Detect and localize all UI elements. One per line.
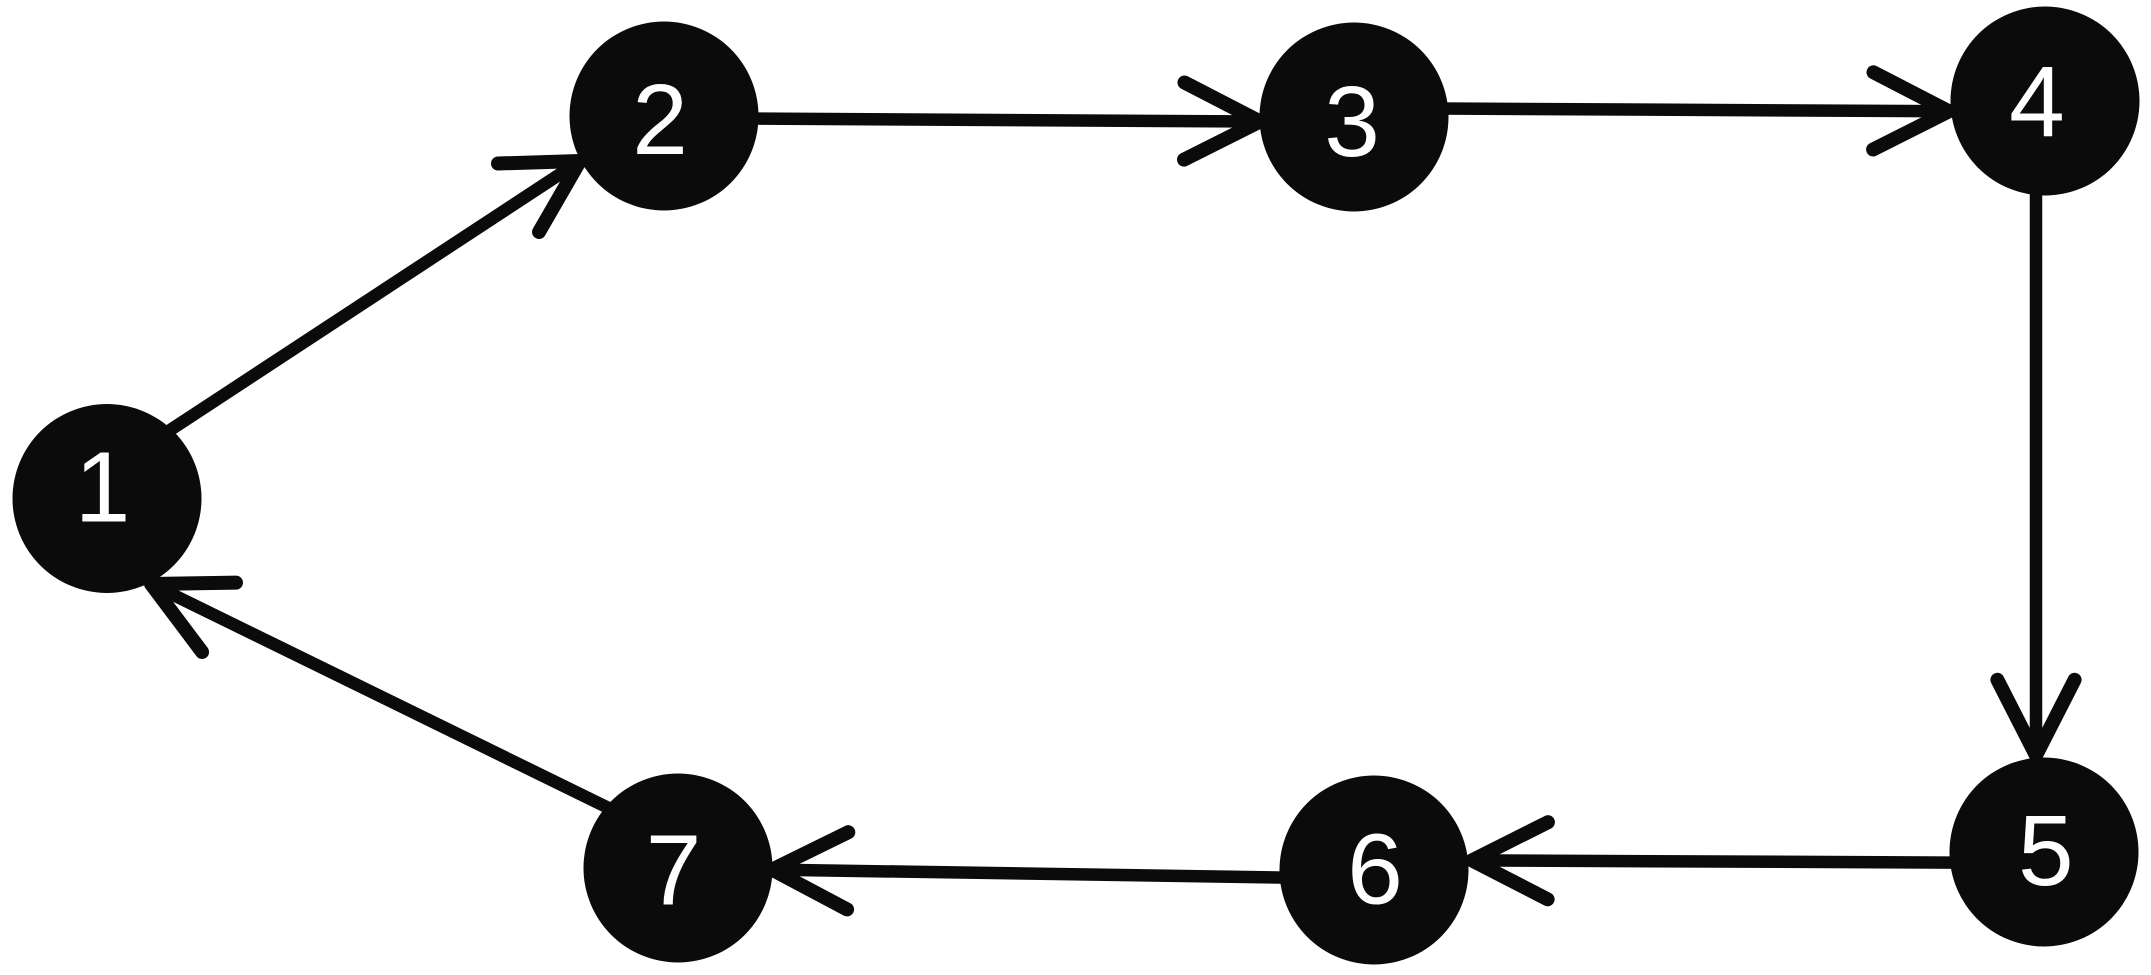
arrowhead into node 3 (1184, 83, 1260, 160)
wire edge 5->6 shaft (1472, 860, 2044, 863)
svg-text:4: 4 (2009, 46, 2065, 158)
wire edge 4->5 shaft (2030, 150, 2043, 756)
arrowhead into node 4 (1873, 72, 1949, 149)
node 7 (584, 774, 773, 963)
svg-text:7: 7 (646, 815, 702, 927)
wire edge 3->4 shaft (1354, 108, 1949, 111)
arrowhead into node 1 (151, 583, 236, 652)
arrowhead into node 7 (772, 832, 848, 909)
wire edge 6->7 shaft (772, 870, 1374, 879)
svg-text:6: 6 (1347, 814, 1403, 926)
node 3 (1260, 23, 1449, 212)
wire edge 7->1 shaft (151, 584, 678, 842)
node 4 (1951, 7, 2140, 196)
svg-text:2: 2 (632, 64, 688, 176)
node 2 (570, 22, 759, 211)
svg-text:1: 1 (75, 432, 131, 544)
node 1 (13, 404, 202, 593)
wire edge 1->2 shaft (120, 161, 580, 463)
arrowhead into node 6 (1472, 822, 1548, 899)
wire edge 2->3 shaft (664, 118, 1260, 122)
node 6 (1280, 776, 1469, 965)
node 5 (1950, 758, 2139, 947)
arrowhead into node 2 (498, 161, 580, 232)
svg-text:3: 3 (1324, 66, 1380, 178)
arrowhead into node 5 (1997, 680, 2074, 756)
svg-text:5: 5 (2018, 795, 2074, 907)
